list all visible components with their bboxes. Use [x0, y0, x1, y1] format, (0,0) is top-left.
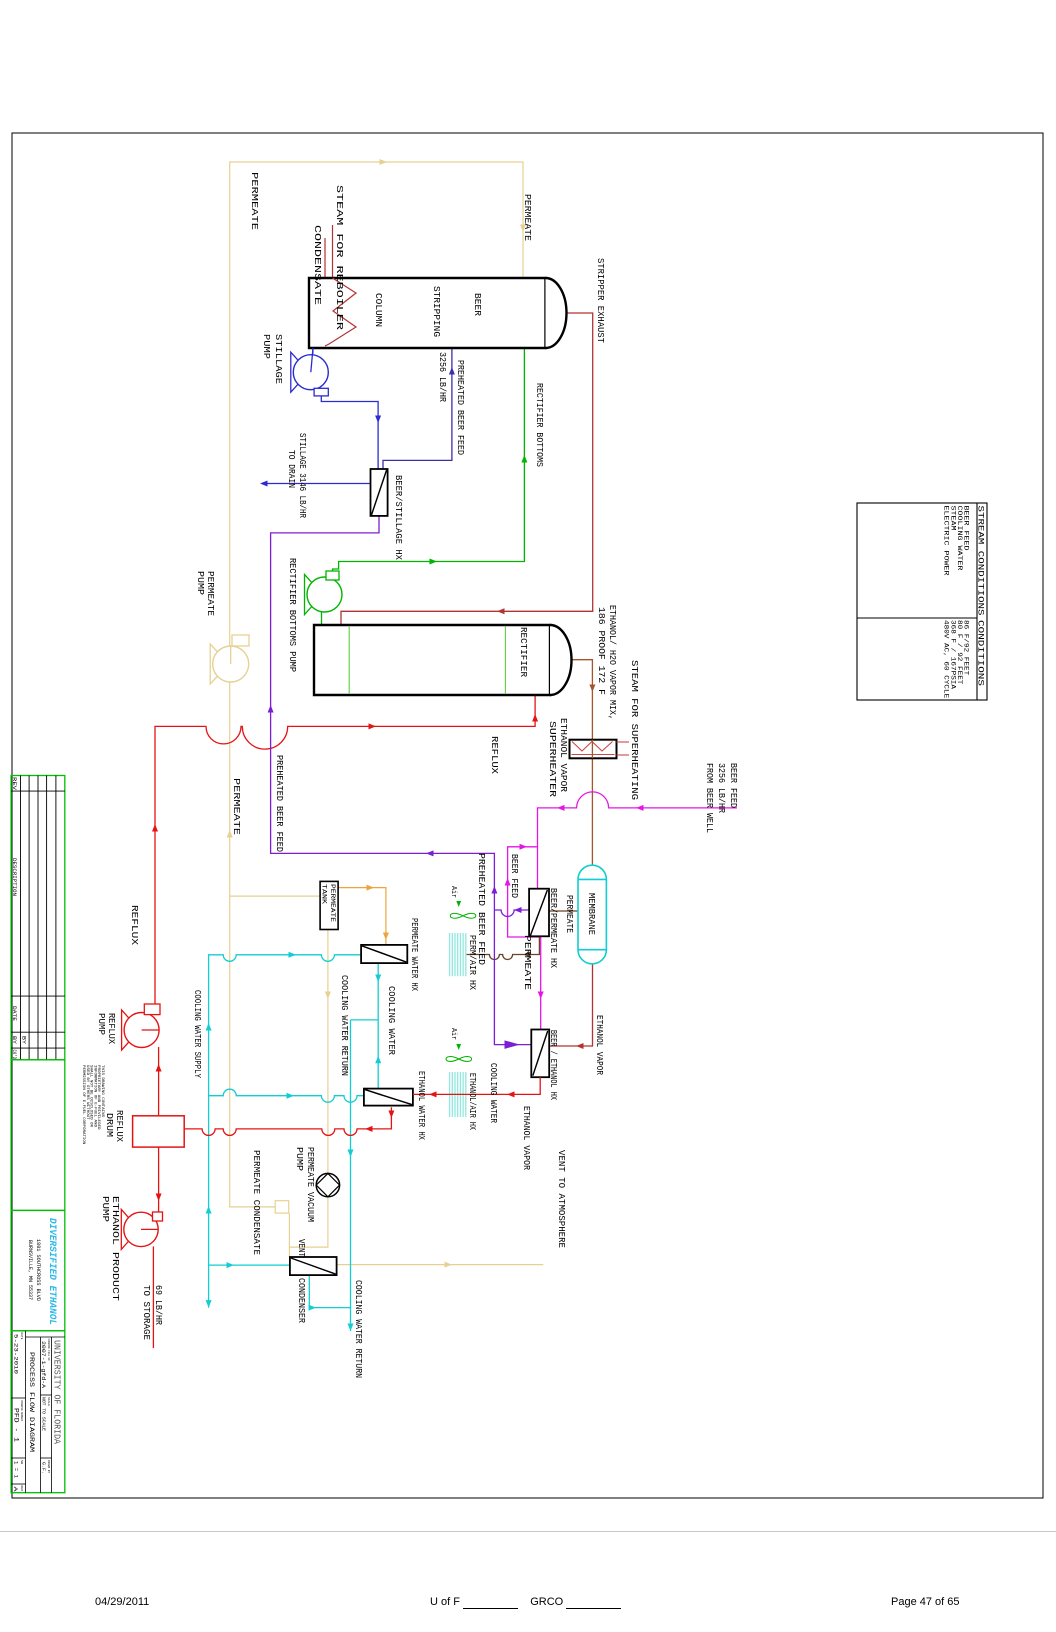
svg-text:STEAM FOR REBOILER: STEAM FOR REBOILER	[334, 185, 344, 331]
svg-text:STRIPPING: STRIPPING	[431, 286, 442, 337]
svg-text:ETHANOL PRODUCT: ETHANOL PRODUCT	[110, 1196, 120, 1301]
svg-text:480V AC, 60 CYCLE: 480V AC, 60 CYCLE	[943, 620, 950, 699]
svg-text:PUMP: PUMP	[294, 1147, 304, 1171]
svg-text:Air: Air	[449, 886, 457, 898]
svg-text:STEAM: STEAM	[949, 506, 956, 531]
svg-text:PERMEATE WATER HX: PERMEATE WATER HX	[409, 918, 419, 992]
svg-text:NOT TO SCALE: NOT TO SCALE	[41, 1397, 46, 1431]
svg-text:STILLAGE: STILLAGE	[273, 334, 283, 384]
svg-text:ELECTRIC POWER: ELECTRIC POWER	[943, 506, 950, 576]
svg-text:STRIPPER EXHAUST: STRIPPER EXHAUST	[595, 258, 605, 343]
svg-text:TO STORAGE: TO STORAGE	[141, 1285, 151, 1340]
svg-text:DESCRIPTION: DESCRIPTION	[11, 858, 18, 896]
svg-text:BY: BY	[11, 1036, 17, 1045]
svg-text:PUMP: PUMP	[195, 571, 205, 595]
svg-text:USED BY OTHERS WITHOUT: USED BY OTHERS WITHOUT	[85, 1065, 89, 1120]
svg-text:2007-1-gfd-A: 2007-1-gfd-A	[40, 1341, 46, 1389]
svg-text:BEER / ETHANOL HX: BEER / ETHANOL HX	[548, 1030, 558, 1101]
svg-text:VENT: VENT	[296, 1239, 306, 1257]
svg-text:PERMISSION OF E-FUEL CORPORATI: PERMISSION OF E-FUEL CORPORATION	[81, 1065, 85, 1145]
svg-text:3256 LB/HR: 3256 LB/HR	[716, 763, 726, 814]
svg-text:REFLUX: REFLUX	[489, 736, 499, 775]
svg-text:COOLING WATER RETURN: COOLING WATER RETURN	[339, 975, 349, 1076]
svg-text:MEMBRANE: MEMBRANE	[586, 893, 596, 935]
svg-text:BURNSVILLE, MN 55337: BURNSVILLE, MN 55337	[27, 1240, 33, 1300]
svg-text:COOLING WATER: COOLING WATER	[956, 506, 963, 571]
svg-text:SH: SH	[20, 1460, 23, 1464]
svg-text:RECTIFIER BOTTOMS PUMP: RECTIFIER BOTTOMS PUMP	[287, 558, 297, 672]
svg-text:80 F / 92 FEET: 80 F / 92 FEET	[956, 620, 963, 685]
svg-text:ETHANOL VAPOR: ETHANOL VAPOR	[558, 718, 568, 793]
svg-text:PERMEATE: PERMEATE	[328, 884, 336, 922]
svg-text:PERM/AIR HX: PERM/AIR HX	[467, 935, 477, 991]
svg-text:DRAWING FILE NO: DRAWING FILE NO	[47, 1339, 50, 1361]
svg-text:BEER FEED: BEER FEED	[509, 854, 519, 898]
svg-text:DRAWING NUMBER: DRAWING NUMBER	[20, 1400, 23, 1421]
svg-text:3256 LB/HR: 3256 LB/HR	[437, 352, 447, 403]
svg-text:INFORMATION OF E-FUEL AND: INFORMATION OF E-FUEL AND	[92, 1065, 96, 1128]
svg-text:ETHANOL VAPOR: ETHANOL VAPOR	[521, 1106, 531, 1171]
svg-text:DATE: DATE	[11, 1006, 18, 1022]
svg-text:TO DRAIN: TO DRAIN	[286, 450, 296, 488]
svg-text:BEER: BEER	[472, 293, 483, 316]
svg-text:69 LB/HR: 69 LB/HR	[153, 1285, 163, 1326]
svg-text:DATE: DATE	[20, 1333, 23, 1340]
svg-text:PERMEATE: PERMEATE	[231, 778, 241, 835]
svg-text:PROCESS FLOW DIAGRAM: PROCESS FLOW DIAGRAM	[28, 1352, 35, 1452]
svg-text:CONDENSER: CONDENSER	[296, 1278, 306, 1324]
svg-text:86 F/92 FEET: 86 F/92 FEET	[963, 620, 970, 676]
svg-text:PERMEATE: PERMEATE	[249, 172, 259, 230]
svg-text:PUMP: PUMP	[96, 1013, 106, 1035]
svg-text:COOLING WATER SUPPLY: COOLING WATER SUPPLY	[192, 990, 202, 1079]
svg-text:PFD - 1: PFD - 1	[13, 1408, 20, 1443]
svg-text:PERMEATE VACUUM: PERMEATE VACUUM	[305, 1147, 315, 1222]
svg-text:368 F / 167PSIA: 368 F / 167PSIA	[949, 620, 956, 689]
svg-text:PREHEATED BEER FEED: PREHEATED BEER FEED	[274, 755, 284, 852]
svg-text:PUMP: PUMP	[261, 334, 271, 359]
svg-text:ETHANOL WATER HX: ETHANOL WATER HX	[416, 1071, 426, 1141]
svg-text:PUMP: PUMP	[100, 1196, 110, 1222]
svg-text:ETHANOL/AIR HX: ETHANOL/AIR HX	[467, 1073, 477, 1131]
svg-text:Air: Air	[449, 1028, 457, 1040]
svg-text:DIVERSIFIED ETHANOL: DIVERSIFIED ETHANOL	[46, 1218, 58, 1325]
svg-text:1801 SOUTHCROSS BLVD: 1801 SOUTHCROSS BLVD	[35, 1239, 41, 1301]
svg-text:ETHANOL VAPOR: ETHANOL VAPOR	[594, 1015, 604, 1076]
svg-text:CONDENSATE: CONDENSATE	[312, 225, 322, 305]
svg-text:A: A	[12, 1487, 19, 1493]
svg-text:BY: BY	[20, 1036, 26, 1045]
svg-text:REFLUX: REFLUX	[106, 1013, 116, 1045]
svg-text:PROPRIETARY AND PRIVILEGED: PROPRIETARY AND PRIVILEGED	[96, 1065, 100, 1130]
svg-text:FROM BEER WELL: FROM BEER WELL	[704, 763, 714, 833]
svg-text:REV: REV	[11, 777, 17, 791]
svg-text:COOLING WATER: COOLING WATER	[386, 986, 396, 1056]
svg-text:5-23-2010: 5-23-2010	[13, 1334, 19, 1374]
svg-text:CONDITIONS: CONDITIONS	[976, 620, 986, 686]
svg-text:CK'D: CK'D	[11, 1050, 17, 1060]
svg-text:BEER/STILLAGE HX: BEER/STILLAGE HX	[393, 475, 403, 561]
svg-text:G.F.: G.F.	[41, 1462, 47, 1474]
svg-text:STILLAGE 3146 LB/HR: STILLAGE 3146 LB/HR	[297, 433, 307, 519]
svg-text:RECTIFIER: RECTIFIER	[518, 627, 529, 677]
svg-text:1 = 1: 1 = 1	[13, 1461, 19, 1478]
svg-text:TANK: TANK	[320, 884, 328, 905]
svg-text:ETHANOL/ H2O VAPOR MIX,: ETHANOL/ H2O VAPOR MIX,	[607, 605, 617, 720]
svg-text:PREHEATED BEER FEED: PREHEATED BEER FEED	[455, 360, 465, 455]
svg-text:COOLING WATER RETURN: COOLING WATER RETURN	[353, 1280, 363, 1378]
svg-text:THIS DRAWING CONTAINS: THIS DRAWING CONTAINS	[100, 1065, 104, 1118]
svg-text:PERMEATE CONDENSATE: PERMEATE CONDENSATE	[251, 1150, 261, 1255]
svg-text:UNIVERSITY OF FLORIDA: UNIVERSITY OF FLORIDA	[52, 1340, 62, 1445]
svg-text:RECTIFIER BOTTOMS: RECTIFIER BOTTOMS	[534, 383, 544, 467]
svg-text:SUPERHEATER: SUPERHEATER	[547, 721, 557, 798]
svg-text:STREAM CONDITIONS: STREAM CONDITIONS	[976, 506, 986, 616]
svg-text:PERMEATE: PERMEATE	[205, 571, 215, 616]
svg-text:COLUMN: COLUMN	[373, 293, 384, 327]
svg-text:SCALE: SCALE	[47, 1397, 50, 1406]
svg-text:BEER FEED: BEER FEED	[963, 506, 970, 551]
svg-text:PREHEATED BEER FEED: PREHEATED BEER FEED	[476, 853, 486, 965]
svg-text:STEAM FOR SUPERHEATING: STEAM FOR SUPERHEATING	[629, 660, 639, 800]
svg-text:PERMEATE: PERMEATE	[522, 194, 532, 241]
svg-text:BEER/PERMEATE HX: BEER/PERMEATE HX	[548, 888, 558, 969]
svg-text:COOLING WATER: COOLING WATER	[488, 1063, 498, 1124]
svg-text:PERMEATE: PERMEATE	[522, 935, 532, 990]
svg-text:PERMEATE: PERMEATE	[564, 895, 574, 933]
svg-text:DRAWN BY: DRAWN BY	[47, 1460, 50, 1473]
svg-text:REFLUX: REFLUX	[129, 905, 139, 946]
svg-text:DRUM: DRUM	[104, 1113, 114, 1137]
svg-text:186 PROOF 172 F: 186 PROOF 172 F	[596, 607, 606, 695]
svg-text:BEER FEED: BEER FEED	[728, 763, 738, 808]
svg-text:SHALL NOT BE DISCLOSED OR: SHALL NOT BE DISCLOSED OR	[89, 1065, 93, 1128]
svg-text:VENT TO ATMOSPHERE: VENT TO ATMOSPHERE	[556, 1150, 566, 1248]
svg-text:REV: REV	[20, 1486, 23, 1492]
svg-text:REFLUX: REFLUX	[114, 1110, 124, 1143]
